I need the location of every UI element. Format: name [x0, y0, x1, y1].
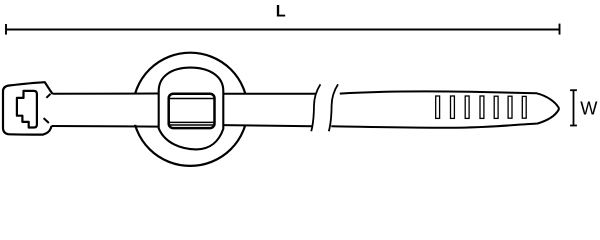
wire: strap top edge head-to-saddle	[52, 93, 158, 95]
head inner opening	[17, 91, 37, 128]
break line right	[329, 84, 338, 131]
wire: strap top edge saddle-to-break	[224, 93, 317, 95]
strap tail outline with tip	[331, 91, 559, 127]
dimension W	[570, 90, 577, 125]
buckle inner top line	[170, 98, 215, 100]
dimension line L	[6, 24, 560, 35]
buckle block on mount	[169, 94, 215, 128]
head notch bottom	[44, 118, 49, 123]
head outer outline	[3, 82, 53, 134]
wire: strap bottom edge saddle-to-break	[224, 125, 313, 126]
svg-text:W: W	[580, 99, 598, 119]
saddle arch of mount	[159, 68, 224, 150]
svg-text:L: L	[276, 2, 286, 20]
strap band erase over circle	[130, 95, 250, 125]
serration slots	[436, 96, 527, 118]
buckle inner bottom lines	[170, 121, 215, 123]
mounting disc circle	[133, 53, 248, 166]
break line left	[311, 84, 320, 131]
wire: strap bottom edge head-to-saddle	[51, 125, 158, 128]
head notch top	[46, 94, 50, 98]
